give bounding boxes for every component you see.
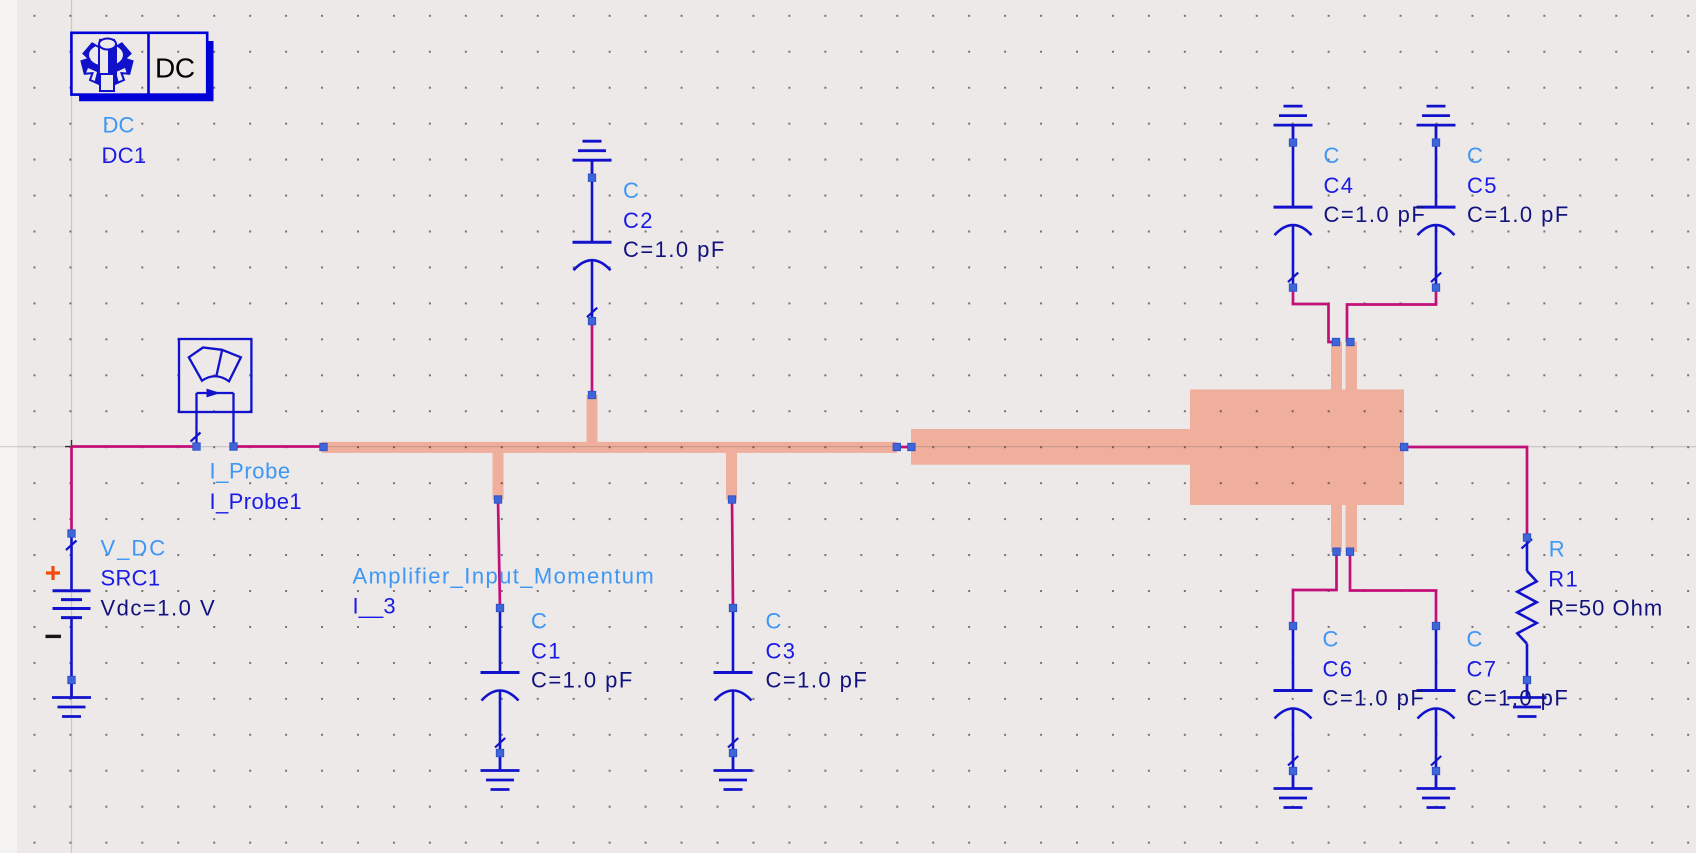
ground C6 [1274,771,1313,808]
ground SRC1 [52,680,91,717]
svg-text:C: C [1323,627,1339,652]
ground C1 [481,753,520,790]
svg-text:C=1.0 pF: C=1.0 pF [1323,686,1426,711]
svg-text:V_DC: V_DC [101,536,168,561]
microstrip pad (large rectangle) [1190,390,1404,506]
pin R1 top [1523,534,1530,541]
svg-text:DC: DC [103,113,135,138]
pin C4 bottom [1289,284,1296,291]
svg-text:C: C [766,609,782,634]
svg-text:C: C [623,178,639,203]
svg-text:I_Probe1: I_Probe1 [210,489,303,514]
svg-text:C3: C3 [766,639,797,664]
svg-text:R: R [1549,536,1565,561]
ground C7 [1417,771,1456,808]
pin C6 top [1289,622,1296,629]
svg-text:C=1.0 pF: C=1.0 pF [1324,202,1427,227]
pin C3 top [729,604,736,611]
svg-text:C6: C6 [1323,657,1354,682]
capacitor C5 [1417,143,1456,288]
wire narrow to wide trace link [897,446,912,449]
pin pad top-right [1347,338,1354,345]
svg-text:SRC1: SRC1 [101,566,161,591]
pin I_Probe 1 [193,443,200,450]
DC controller shadow [79,41,213,101]
pin C3 bottom [729,749,736,756]
pin C4 top [1289,139,1296,146]
svg-text:C4: C4 [1324,173,1355,198]
wire C4 link [1293,288,1336,342]
svg-text:C=1.0 pF: C=1.0 pF [531,668,634,693]
svg-text:C7: C7 [1467,657,1498,682]
ground R1 [1508,680,1547,717]
svg-text:C: C [531,609,547,634]
pin wide in [908,443,915,450]
I_Probe arrow line [197,392,234,394]
pad stub bottom-left [1331,505,1342,552]
capacitor C3 [714,608,753,753]
V_DC lead bottom [70,618,73,680]
origin cross [65,440,78,453]
pin R1 bottom [1523,676,1530,683]
V_DC minus sign [46,635,62,638]
svg-text:C=1.0 pF: C=1.0 pF [1467,686,1570,711]
resistor R1 [1517,538,1536,681]
ground C5 [1417,106,1456,143]
pin C6 bottom [1289,767,1296,774]
capacitor C2 [573,178,612,323]
pin C5 bottom [1432,284,1439,291]
pad stub top-left [1331,342,1342,390]
pin C1 stub [494,496,501,503]
pin narrow out [893,443,900,450]
svg-text:DC1: DC1 [102,143,147,168]
capacitor C6 [1274,626,1313,771]
microstrip stub to C1 (down) [493,453,504,500]
microstrip narrow trace (Amplifier_Input_Momentum) [322,442,897,453]
I_Probe lead right [232,393,234,447]
capacitor C1 [481,608,520,753]
pin SRC1 - [68,676,75,683]
microstrip stub to C3 (down) [726,453,737,500]
wire pad to R1 [1404,447,1527,538]
I_Probe needle [217,349,223,375]
I_Probe arrow head [207,389,221,398]
svg-text:C2: C2 [623,208,654,233]
wire I_Probe to trace [234,445,324,448]
wire C3 drop [732,500,733,609]
V_DC battery plates [53,591,91,618]
microstrip wide trace [911,429,1191,465]
svg-text:C1: C1 [531,639,562,664]
pin C2 bottom [588,317,595,324]
wire V_DC riser [70,447,73,534]
svg-text:Vdc=1.0 V: Vdc=1.0 V [101,596,217,621]
pad stub top-right [1346,342,1358,390]
svg-text:C: C [1324,143,1340,168]
capacitor C7 [1417,626,1456,771]
pin C7 bottom [1432,767,1439,774]
ground C3 [714,753,753,790]
svg-text:C: C [1467,627,1483,652]
pin C5 top [1432,139,1439,146]
pin C1 top [496,604,503,611]
I_Probe meter gauge [189,348,241,382]
svg-text:C5: C5 [1467,173,1498,198]
ground C4 [1274,106,1313,143]
pin SRC1 + [68,530,75,537]
ground C2 [573,141,612,178]
pin pad bottom-left [1333,548,1340,555]
I_Probe lead left [195,393,197,447]
capacitor C4 [1274,143,1313,288]
pin pad out [1401,443,1408,450]
pin C3 stub [728,496,735,503]
pin I_Probe 2 [230,443,237,450]
sheet left edge band [0,0,17,853]
pin trace in [320,443,327,450]
wire C1 drop [498,500,500,609]
svg-text:DC: DC [155,52,195,83]
microstrip stub to C2 (up) [587,395,598,442]
svg-text:I__3: I__3 [353,594,396,619]
I_Probe tick [191,433,201,442]
V_DC SRC1 tick [66,541,77,551]
DC controller divider [147,33,150,95]
svg-text:C: C [1467,143,1483,168]
pin pad top-left [1332,338,1339,345]
svg-text:C=1.0 pF: C=1.0 pF [623,237,726,262]
wire C5 link [1347,288,1436,342]
svg-text:R=50 Ohm: R=50 Ohm [1548,596,1663,621]
svg-text:R1: R1 [1548,566,1579,591]
wire SRC1 to I_Probe [72,445,197,448]
V_DC plus sign [46,566,60,580]
svg-text:Amplifier_Input_Momentum: Amplifier_Input_Momentum [353,564,656,589]
DC controller box [71,33,207,95]
V_DC SRC1 lead top [70,534,73,591]
wire C7 link [1350,552,1436,626]
axis line vertical [71,0,73,853]
pin C2 top [588,174,595,181]
wire C2 drop [591,321,594,395]
pin C1 bottom [496,749,503,756]
svg-text:I_Probe: I_Probe [210,459,291,484]
DC gear icon [82,40,133,86]
pin pad bottom-right [1346,548,1353,555]
axis line horizontal [0,446,1696,448]
svg-text:C=1.0 pF: C=1.0 pF [766,668,869,693]
wire C6 link [1293,552,1337,626]
I_Probe box [179,339,251,412]
pad stub bottom-right [1346,505,1358,552]
pin C7 top [1432,622,1439,629]
pin C2 stub [588,391,595,398]
svg-text:C=1.0 pF: C=1.0 pF [1467,202,1570,227]
